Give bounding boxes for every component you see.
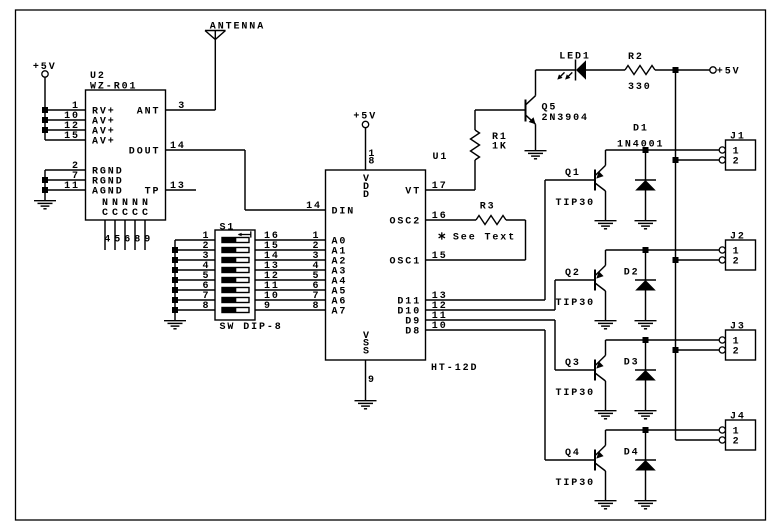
svg-text:TIP30: TIP30 (556, 198, 596, 209)
svg-text:OSC1: OSC1 (390, 257, 422, 268)
svg-text:9: 9 (144, 235, 152, 246)
svg-text:See Text: See Text (453, 232, 516, 243)
svg-text:U1: U1 (433, 152, 449, 163)
svg-text:1N4001: 1N4001 (617, 139, 664, 150)
svg-text:J2: J2 (730, 232, 746, 243)
svg-text:D4: D4 (624, 448, 640, 459)
svg-text:D3: D3 (624, 358, 640, 369)
svg-text:TP: TP (145, 187, 161, 198)
svg-text:C: C (132, 208, 140, 219)
svg-text:15: 15 (64, 131, 80, 142)
svg-text:Q3: Q3 (565, 358, 581, 369)
svg-text:3: 3 (178, 101, 186, 112)
svg-text:Q1: Q1 (565, 168, 581, 179)
svg-text:+5V: +5V (717, 66, 741, 77)
svg-text:ANTENNA: ANTENNA (210, 22, 265, 33)
svg-text:330: 330 (628, 82, 652, 93)
svg-text:2N3904: 2N3904 (542, 113, 589, 124)
svg-text:S: S (363, 346, 371, 357)
svg-text:R2: R2 (628, 52, 644, 63)
svg-text:8: 8 (134, 235, 142, 246)
svg-text:Q2: Q2 (565, 268, 581, 279)
svg-text:14: 14 (306, 201, 322, 212)
svg-text:AGND: AGND (92, 187, 124, 198)
svg-text:J4: J4 (730, 412, 746, 423)
svg-text:SW DIP-8: SW DIP-8 (220, 322, 283, 333)
svg-text:C: C (112, 208, 120, 219)
svg-text:DOUT: DOUT (129, 147, 161, 158)
svg-text:HT-12D: HT-12D (431, 363, 478, 374)
svg-text:11: 11 (64, 181, 80, 192)
svg-text:LED1: LED1 (559, 52, 591, 63)
svg-text:OSC2: OSC2 (390, 217, 422, 228)
svg-text:J3: J3 (730, 322, 746, 333)
svg-text:Q4: Q4 (565, 448, 581, 459)
svg-text:2: 2 (733, 157, 741, 168)
svg-text:C: C (122, 208, 130, 219)
svg-text:8: 8 (313, 301, 321, 312)
svg-text:ANT: ANT (137, 107, 161, 118)
svg-text:WZ-R01: WZ-R01 (90, 81, 137, 92)
svg-text:D: D (363, 190, 371, 201)
svg-text:TIP30: TIP30 (556, 298, 596, 309)
svg-text:1K: 1K (492, 141, 508, 152)
svg-text:9: 9 (368, 375, 376, 386)
svg-text:8: 8 (203, 301, 211, 312)
svg-text:+5V: +5V (353, 111, 377, 122)
svg-text:Q5: Q5 (542, 102, 558, 113)
svg-text:D2: D2 (624, 268, 640, 279)
svg-text:4: 4 (104, 235, 112, 246)
svg-text:5: 5 (114, 235, 122, 246)
svg-text:D8: D8 (405, 327, 421, 338)
svg-text:14: 14 (170, 141, 186, 152)
svg-text:9: 9 (264, 301, 272, 312)
svg-text:A7: A7 (332, 307, 348, 318)
svg-text:2: 2 (733, 257, 741, 268)
svg-text:D1: D1 (633, 124, 649, 135)
svg-text:AV+: AV+ (92, 137, 116, 148)
svg-text:8: 8 (368, 156, 376, 167)
svg-text:DIN: DIN (332, 207, 356, 218)
svg-text:13: 13 (170, 181, 186, 192)
svg-text:VT: VT (405, 187, 421, 198)
svg-text:J1: J1 (730, 132, 746, 143)
svg-text:TIP30: TIP30 (556, 478, 596, 489)
svg-text:2: 2 (733, 437, 741, 448)
svg-text:6: 6 (124, 235, 132, 246)
svg-text:S1: S1 (220, 222, 236, 233)
svg-text:C: C (142, 208, 150, 219)
svg-text:R3: R3 (480, 201, 496, 212)
svg-text:2: 2 (733, 347, 741, 358)
svg-text:C: C (102, 208, 110, 219)
svg-text:TIP30: TIP30 (556, 388, 596, 399)
